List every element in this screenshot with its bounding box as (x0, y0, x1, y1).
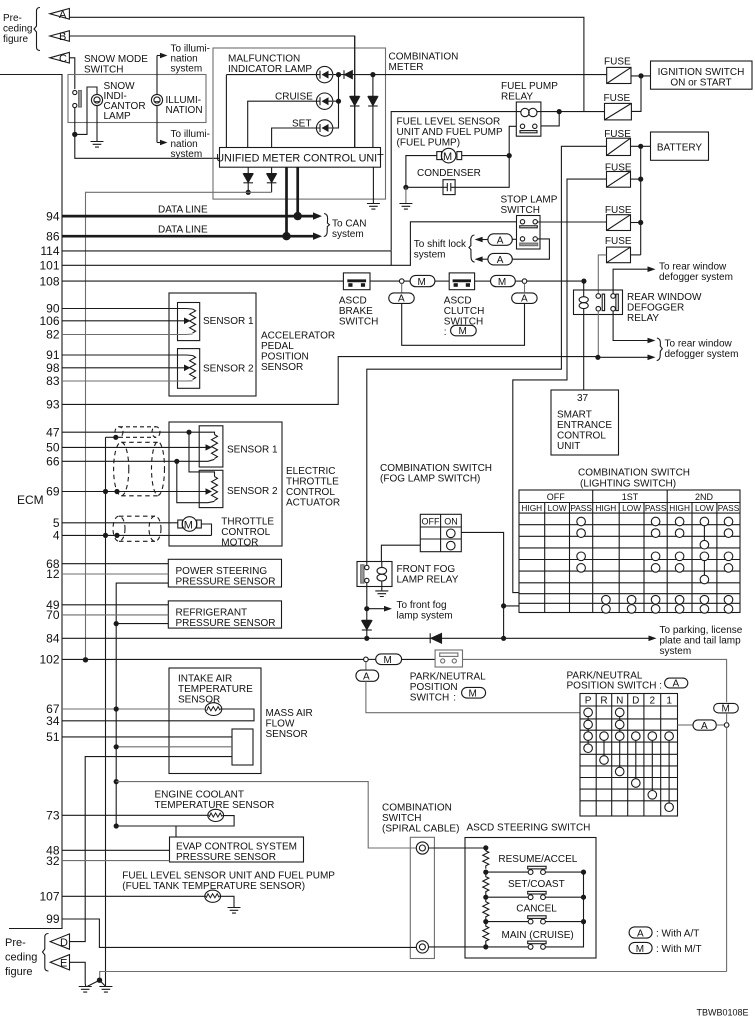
wire A-path drop from PNP circle (365, 662, 367, 670)
wire junction to unified meter control unit left pin (75, 134, 220, 158)
svg-text:DEFOGGER: DEFOGGER (627, 303, 684, 314)
wire fuse5 right to battery bus (631, 222, 641, 224)
rear window defogger relay box (574, 290, 623, 315)
svg-text:108: 108 (39, 274, 59, 288)
data line wire pin 94 (CAN-H thick) (62, 167, 298, 216)
PNP table position circles (584, 708, 674, 811)
wire CRUISE anode to UMCU (248, 101, 317, 147)
svg-text:ASCD: ASCD (339, 296, 367, 307)
wire D net to MAF element (70, 757, 232, 942)
svg-text:SWITCH: SWITCH (382, 813, 421, 824)
wire ground node to ground (405, 187, 407, 203)
svg-text:LOW: LOW (695, 503, 714, 513)
wire relay node to contact pin (541, 112, 559, 126)
potentiometer throttle sensor 1 (212, 435, 218, 459)
svg-text:SENSOR 1: SENSOR 1 (203, 316, 254, 327)
junction dot fuel pump ground node (403, 185, 408, 190)
fog relay coil (381, 562, 383, 568)
svg-text:ACCELERATOR: ACCELERATOR (261, 331, 335, 342)
svg-text:POWER STEERING: POWER STEERING (176, 566, 268, 577)
svg-text:UNIT: UNIT (557, 441, 580, 452)
ascd steering switch box (465, 838, 596, 959)
svg-text:ON or START: ON or START (670, 78, 731, 89)
junction dot MIL row (336, 72, 341, 77)
wire bypass right to circle (524, 283, 526, 293)
junction dot motor feed (507, 153, 512, 158)
svg-text:ENTRANCE: ENTRANCE (557, 420, 612, 431)
junction dot fuse5 battery bus (638, 220, 643, 225)
fog lamp switch table (420, 514, 461, 551)
defogger relay contact pair left (596, 294, 601, 299)
svg-text:OFF: OFF (422, 517, 440, 527)
fuse 5 (607, 215, 631, 231)
wire MIL anode to UMCU (226, 75, 316, 148)
junction dot shield capsule (113, 435, 118, 440)
connector circle (clutch out) (522, 279, 527, 284)
wire pin 47 sensor supply (62, 432, 215, 434)
oval A (PNP right) (693, 720, 716, 730)
park/neutral position switch box (M/T) (435, 650, 462, 667)
wire pin 102 park/neutral row (62, 658, 364, 660)
wire motor right to relay drop (462, 155, 510, 157)
SECTION_METER (62, 36, 607, 663)
defogger relay coil (583, 281, 585, 296)
svg-text:M: M (184, 519, 193, 531)
svg-text:FUEL PUMP: FUEL PUMP (501, 81, 558, 92)
wire brake switch to connector circle (370, 280, 400, 282)
potentiometer throttle sensor 2 (212, 477, 218, 501)
switch resume/accel (528, 870, 533, 875)
SECTION_PINS (39, 209, 59, 926)
wire pin 93 net (62, 357, 648, 405)
svg-text:HIGH: HIGH (669, 503, 690, 513)
indicator lamp SET (316, 120, 332, 136)
wire pin 82 to sensor1 bottom (62, 333, 193, 336)
svg-text:SWITCH :: SWITCH : (410, 693, 456, 704)
wire pin 69 to throttle sensor2 wiper (arrow) (62, 491, 206, 493)
SECTION_MAF (62, 668, 313, 942)
throttle control motor (182, 517, 197, 532)
fuse 4 (607, 172, 631, 188)
wire MAF ground to bus (116, 746, 232, 748)
A/T bypass wire (402, 303, 525, 345)
fog switch contact circle row3 (447, 541, 456, 550)
svg-text:POSITION SWITCH :: POSITION SWITCH : (567, 681, 663, 692)
svg-text:E: E (60, 958, 67, 970)
wire relay contact to fuel pump motor (509, 126, 516, 155)
svg-text:47: 47 (46, 425, 60, 439)
svg-text:: With A/T: : With A/T (656, 929, 699, 940)
svg-text:(SPIRAL CABLE): (SPIRAL CABLE) (382, 824, 459, 835)
wire C to snow mode switch (69, 58, 74, 89)
arrow to illumination system (top) (157, 55, 160, 57)
svg-text:73: 73 (46, 809, 60, 823)
junction dot CAN-L (282, 232, 290, 240)
svg-text:COMBINATION: COMBINATION (382, 803, 452, 814)
thermistor intake air temperature (205, 703, 222, 716)
svg-text:M: M (418, 277, 426, 288)
svg-text:CLUTCH: CLUTCH (444, 306, 485, 317)
svg-text:Pre-: Pre- (3, 13, 22, 24)
wire fuse4 to smart entrance + ECM 93 net (battery feed) (513, 179, 607, 592)
wire ground return border bottom (100, 972, 727, 981)
brace (bottom preceding figure) (43, 934, 49, 972)
APP sensor 1 inner box (178, 303, 200, 341)
svg-text:NATION: NATION (166, 105, 203, 116)
svg-text:M: M (636, 944, 644, 955)
SECTION_ASCDSW (62, 803, 702, 959)
wire pin 84 tail lamp net (62, 637, 649, 639)
ground (fuel pump) (399, 204, 412, 210)
wire MIL output row to fuse 1 (353, 74, 607, 76)
svg-text:LOW: LOW (622, 503, 641, 513)
wire fog relay contact to junction (366, 583, 368, 609)
lighting switch contact circles (577, 517, 733, 613)
svg-text:C: C (59, 53, 67, 65)
wire pin 66 sensor ground (62, 459, 215, 461)
diagonal bottom dot to left ground (88, 980, 100, 986)
wire ignition node to fuse2 (631, 76, 641, 112)
wire fuse6 right to battery bus (631, 254, 641, 256)
svg-text:D: D (632, 696, 639, 707)
mass air flow sensor box (169, 668, 261, 774)
junction dot 4 drain left (103, 533, 108, 538)
oval A (bypass left) (389, 293, 414, 304)
svg-text:102: 102 (39, 653, 59, 667)
svg-text:LOW: LOW (548, 503, 567, 513)
svg-text:SET/COAST: SET/COAST (508, 879, 565, 890)
svg-text:M: M (459, 326, 467, 337)
SECTION_LOWSENSORS (62, 779, 416, 913)
svg-text:FUSE: FUSE (604, 93, 631, 104)
data line wire pin 86 (CAN-L thick) (62, 167, 287, 236)
svg-text:RESUME/ACCEL: RESUME/ACCEL (498, 854, 577, 865)
svg-text:1: 1 (666, 696, 672, 707)
wire condenser left to ground node (406, 186, 443, 188)
wire ground bus to spiral cable (116, 782, 416, 848)
svg-text:MAIN (CRUISE): MAIN (CRUISE) (502, 930, 574, 941)
svg-text:INDICATOR LAMP: INDICATOR LAMP (228, 64, 312, 75)
arrow to illumination system (bottom) (157, 142, 160, 144)
UMCU ground stem (372, 167, 374, 203)
svg-text:To shift lock: To shift lock (414, 239, 467, 250)
svg-text:REAR WINDOW: REAR WINDOW (627, 292, 702, 303)
wire pin 70 (62, 614, 168, 616)
unified meter control unit box (220, 148, 381, 168)
fuel pump relay contact bar (520, 131, 537, 133)
park/neutral position switch table (A/T) (580, 694, 678, 817)
wire M oval to clutch switch (435, 280, 449, 282)
wire fuse6 to defogger relay contact (598, 255, 606, 294)
junction dot row resume (483, 870, 488, 875)
connector triangle C (50, 52, 70, 63)
wire 47 branch to sensor2 top (189, 432, 215, 476)
oval M (PNP path) (376, 654, 402, 665)
condenser (capacitor) (443, 180, 455, 195)
oval A (PNP table legend) (665, 678, 688, 688)
svg-text:94: 94 (46, 209, 60, 223)
arrow pin93 net to rear window defogger (648, 355, 656, 361)
fuel pump relay contacts (520, 124, 524, 128)
APP sensor 2 inner box (178, 349, 200, 389)
svg-text:system: system (414, 249, 446, 260)
wire shift lock upper row (512, 238, 517, 240)
SECTION_BOTTOM (70, 962, 749, 1017)
junction dot ignition node (638, 73, 643, 78)
junction dot defogger output on pin93 net (595, 355, 600, 360)
junction dot 84 fog branch (364, 636, 369, 641)
wire border vertical to bottom (726, 713, 728, 972)
svg-text:LAMP: LAMP (104, 111, 132, 122)
arrow to parking license tail lamp (649, 636, 657, 642)
ground (right / shield drain) (99, 987, 112, 993)
svg-text:ASCD STEERING SWITCH: ASCD STEERING SWITCH (467, 823, 591, 834)
svg-text:R: R (600, 696, 607, 707)
UMCU output diode right (pointing down) (267, 167, 277, 192)
wire pin 48 (62, 849, 170, 851)
connector circle PNP M/T (364, 657, 369, 662)
svg-text:To rear window: To rear window (665, 339, 733, 350)
SECTION_FUEL (391, 81, 604, 251)
svg-text:D: D (60, 937, 68, 949)
wire fuse4 right to battery bus (631, 178, 641, 180)
wire motor feed down to condenser (455, 156, 509, 188)
legend oval A (629, 927, 652, 938)
svg-text:PASS: PASS (645, 503, 667, 513)
wire pin 51 to MAF element (62, 736, 232, 738)
wire PNP table row2 to A oval right (678, 724, 694, 726)
svg-text:RELAY: RELAY (627, 313, 659, 324)
wire pin 49 (62, 604, 168, 606)
junction dot 47 branch (186, 430, 191, 435)
svg-text:IGNITION SWITCH: IGNITION SWITCH (658, 67, 745, 78)
front fog lamp relay box (357, 562, 392, 587)
svg-text:PRESSURE SENSOR: PRESSURE SENSOR (176, 577, 276, 588)
svg-text:INTAKE AIR: INTAKE AIR (178, 674, 232, 685)
svg-text:FUSE: FUSE (605, 236, 632, 247)
wire refrigerant ground to bus (116, 623, 168, 625)
PNP switch bar (440, 653, 458, 656)
svg-text:PRESSURE SENSOR: PRESSURE SENSOR (176, 618, 276, 629)
wire pin 68 (62, 563, 168, 565)
svg-text:ELECTRIC: ELECTRIC (286, 466, 335, 477)
junction dot cancel right (581, 919, 586, 924)
svg-text:system: system (171, 64, 203, 75)
svg-text::: : (444, 327, 447, 338)
svg-text:ENGINE COOLANT: ENGINE COOLANT (155, 790, 244, 801)
ground (snow indicator lamp) (91, 142, 104, 148)
svg-text:B: B (59, 31, 66, 43)
smart entrance control unit box (551, 390, 619, 455)
wire fuel tank temp sensor to ground (219, 896, 234, 907)
wire lamp cathode bus (333, 75, 339, 128)
UMCU output diode left (pointing down) (243, 167, 253, 192)
wire M oval 2 to connector circle 2 (515, 280, 522, 282)
junction dot row main (483, 944, 488, 949)
connector circle (brake out) (399, 279, 404, 284)
ground (E / ECM case left) (79, 987, 92, 993)
legend oval M (629, 942, 652, 953)
defogger relay coil bottom to smart entrance (583, 309, 585, 390)
wire UMCU diode return to ECM pin 102 (86, 192, 272, 660)
wire right contact top to defogger arrow 1 (613, 269, 648, 294)
svg-text:SENSOR 2: SENSOR 2 (227, 486, 278, 497)
svg-text:Pre-: Pre- (5, 937, 26, 949)
MAF element box (232, 729, 253, 765)
svg-text:POSITION: POSITION (261, 352, 309, 363)
wire E to ground (70, 962, 85, 983)
wire pin 5 to motor (62, 522, 178, 524)
SECTION_MIDRIGHT (519, 390, 740, 613)
svg-text:(FUEL PUMP): (FUEL PUMP) (397, 138, 461, 149)
evap control system pressure sensor box (170, 837, 304, 862)
switch set/coast (528, 895, 533, 900)
svg-text:2: 2 (650, 696, 656, 707)
junction dot set right (581, 895, 586, 900)
oval A (bypass right) (512, 293, 537, 304)
defogger relay contact pair right (611, 294, 616, 299)
svg-text:83: 83 (46, 374, 60, 388)
svg-text:ceding: ceding (5, 952, 37, 964)
SECTION_APP (62, 293, 335, 396)
thermistor engine coolant temperature (208, 809, 224, 821)
svg-text:REFRIGERANT: REFRIGERANT (176, 608, 248, 619)
svg-text:A: A (521, 294, 528, 305)
SECTION_DEFOGGER (62, 262, 738, 405)
svg-text:RELAY: RELAY (501, 92, 533, 103)
connector triangle E (50, 955, 69, 970)
wire spiral top to resistor ladder (429, 847, 486, 849)
potentiometer APP sensor 1 (190, 309, 196, 333)
wire fog switch row3 to fog relay coil (381, 545, 420, 561)
svg-text:A: A (701, 721, 708, 732)
wire fuse3 to battery (631, 145, 651, 147)
svg-text:ACTUATOR: ACTUATOR (286, 498, 340, 509)
shield drain wire corner (106, 436, 116, 438)
wire fuse2 to relay node (541, 111, 605, 113)
SECTION_THROTTLE (62, 422, 340, 987)
junction dot resume right (581, 870, 586, 875)
arrow to front fog lamp system (367, 608, 385, 610)
oval M (clutch switch legend) (451, 325, 477, 336)
wire illumination bulb top to illumination system (156, 56, 158, 95)
svg-text:STOP LAMP: STOP LAMP (501, 195, 558, 206)
wire pin 107 to fuel tank temp sensor (62, 895, 206, 897)
svg-text:A: A (673, 679, 680, 690)
fuel pump relay box (516, 102, 541, 136)
switch contact upper (snow mode switch) (73, 90, 77, 94)
svg-text:A: A (497, 255, 504, 266)
svg-text:FUEL LEVEL SENSOR: FUEL LEVEL SENSOR (397, 117, 501, 128)
svg-text:101: 101 (39, 259, 59, 273)
spiral cable contact bottom (416, 941, 428, 953)
A/T bypass path left drop (401, 283, 403, 293)
resistor R1 (resume) (483, 848, 489, 869)
wire battery bus down (640, 146, 642, 255)
wire circle to M oval (368, 658, 376, 660)
wire cancel row (486, 921, 584, 923)
svg-text:DATA LINE: DATA LINE (158, 205, 208, 216)
svg-text:34: 34 (46, 714, 60, 728)
svg-text:ceding: ceding (3, 24, 32, 35)
lighting switch table headers (521, 492, 739, 513)
junction dot 69 shield (114, 489, 119, 494)
shield tube around wires 50/66 (dashed) (114, 442, 165, 496)
bulb illumination (151, 94, 162, 105)
svg-text:SENSOR: SENSOR (261, 362, 303, 373)
svg-text:82: 82 (46, 328, 60, 342)
wire pin 98 to sensor2 wiper (arrow) (62, 367, 185, 369)
svg-text:A: A (398, 294, 405, 305)
svg-text:system: system (171, 149, 203, 160)
svg-text:ON: ON (444, 517, 458, 527)
svg-text:plate and tail lamp: plate and tail lamp (660, 636, 742, 647)
junction dot lighting table row I feed (501, 603, 506, 608)
switch contact lower (snow mode switch) (73, 103, 77, 107)
brace to shift lock system (469, 235, 475, 262)
svg-text:SWITCH: SWITCH (339, 317, 378, 328)
svg-text:MOTOR: MOTOR (221, 538, 258, 549)
svg-text:BRAKE: BRAKE (339, 306, 373, 317)
svg-text:SNOW MODE: SNOW MODE (84, 54, 148, 65)
wire evap ground tee (175, 826, 177, 837)
svg-text:32: 32 (46, 854, 60, 868)
svg-text:106: 106 (39, 314, 59, 328)
diode on meter ground vertical (pointing down) (368, 75, 378, 148)
wire fuse1 to ignition switch (631, 75, 651, 77)
svg-text:CANCEL: CANCEL (516, 904, 557, 915)
svg-text:107: 107 (39, 890, 59, 904)
svg-text:To rear window: To rear window (659, 262, 727, 273)
svg-text:: With M/T: : With M/T (656, 944, 702, 955)
svg-text:To CAN: To CAN (332, 219, 366, 230)
svg-text:66: 66 (46, 455, 60, 469)
wire pin 101 joining ignition net (62, 264, 391, 266)
wire from snow switch to junction (74, 108, 76, 135)
svg-text:THROTTLE: THROTTLE (221, 517, 274, 528)
wire stop lamp contact2 loop to shift lock lower (512, 239, 549, 259)
junction dot ladder top (483, 845, 488, 850)
junction dot row cancel (483, 919, 488, 924)
svg-text:COMBINATION: COMBINATION (389, 52, 459, 63)
wire pin 114 (ignition net) (62, 250, 391, 252)
svg-text:A: A (363, 672, 370, 683)
wire ECT return to ground bus (116, 816, 234, 826)
svg-text:CONTROL: CONTROL (557, 431, 606, 442)
wire resume row (486, 871, 584, 873)
svg-text:TEMPERATURE: TEMPERATURE (178, 684, 253, 695)
wire pin 90 to sensor1 top (62, 308, 193, 311)
accelerator pedal position sensor box (169, 293, 256, 396)
wire pin 83 to sensor2 bottom (62, 380, 193, 382)
svg-text:86: 86 (46, 229, 60, 243)
junction dot 4 shield (114, 533, 119, 538)
junction dot snow switch node (72, 132, 77, 137)
svg-text:To front fog: To front fog (397, 600, 447, 611)
wire circle to M oval (404, 280, 410, 282)
fog relay contact bar (361, 565, 364, 583)
SECTION_FUSES (367, 57, 752, 593)
svg-text:HIGH: HIGH (596, 503, 617, 513)
svg-text:UNIFIED METER CONTROL UNIT: UNIFIED METER CONTROL UNIT (216, 153, 384, 165)
junction dot on pin 102 wire (83, 657, 88, 662)
svg-text:A: A (637, 929, 644, 940)
junction dot CRUISE row (336, 99, 341, 104)
svg-text:COMBINATION SWITCH: COMBINATION SWITCH (578, 468, 690, 479)
wire SET anode to UMCU (272, 128, 317, 148)
svg-text:1ST: 1ST (622, 492, 639, 502)
svg-text:M: M (498, 277, 506, 288)
